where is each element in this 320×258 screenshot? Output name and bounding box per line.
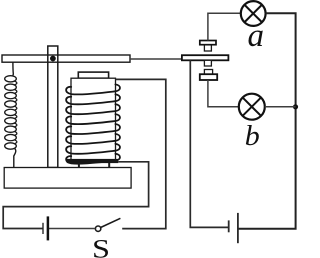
wire: battery 1 left loop to coil bottom lead bbox=[3, 162, 148, 229]
svg-text:a: a bbox=[248, 18, 265, 54]
wire: upper contact to lamp a bbox=[208, 13, 241, 40]
switch S lever bbox=[101, 218, 121, 227]
lower fixed contact pad bbox=[200, 74, 217, 80]
upper fixed contact pad bbox=[200, 41, 216, 45]
wire: battery 1 to switch bbox=[48, 228, 96, 230]
lamp a bbox=[241, 1, 266, 26]
coil winding L1 bbox=[66, 84, 120, 94]
svg-text:b: b bbox=[245, 121, 260, 152]
wire: lamp b to right rail bbox=[265, 106, 296, 108]
battery 1 positive plate (long, thick) bbox=[47, 216, 50, 240]
electromagnet core/bobbin bbox=[71, 78, 116, 161]
wooden base bbox=[4, 168, 131, 189]
lower fixed contact block bbox=[204, 70, 212, 75]
pivot dot bbox=[50, 56, 56, 62]
junction node dot bbox=[293, 104, 298, 109]
wire: lamp a right side down to battery 2 bbox=[238, 13, 296, 229]
electromagnet core cap bbox=[78, 72, 108, 78]
battery 1 negative plate (short) bbox=[42, 223, 44, 234]
battery 2 negative plate (short) bbox=[228, 220, 230, 232]
armature bar (relay lever) bbox=[2, 55, 130, 62]
lamp b bbox=[239, 94, 265, 120]
coil bottom flange (dark band) bbox=[67, 159, 119, 163]
upper fixed contact stem bbox=[204, 45, 211, 51]
moving contact lower stem bbox=[204, 60, 211, 66]
wire: armature to contact bar bbox=[130, 58, 182, 60]
spring (return spring from armature to base) bbox=[12, 62, 15, 76]
battery 2 positive plate (long) bbox=[237, 213, 239, 243]
coil mounting leg right bbox=[108, 163, 110, 168]
wire: contact bar common down to battery 2 bbox=[190, 60, 228, 227]
movable contact bar (common) bbox=[182, 55, 229, 60]
support post (pivot stand) bbox=[48, 46, 58, 168]
switch S hinge bbox=[95, 226, 100, 231]
svg-text:S: S bbox=[92, 234, 110, 258]
wire: coil top lead to switch bbox=[116, 79, 166, 228]
wire: lower contact to lamp b bbox=[208, 80, 239, 107]
coil mounting leg left bbox=[78, 163, 80, 168]
